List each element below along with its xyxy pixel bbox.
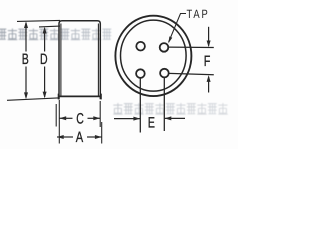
svg-text:D: D <box>40 51 48 68</box>
svg-text:TAP: TAP <box>187 7 210 21</box>
svg-text:C: C <box>76 111 84 128</box>
svg-text:F: F <box>204 53 211 70</box>
svg-text:B: B <box>22 51 29 68</box>
svg-text:E: E <box>148 115 155 132</box>
svg-text:A: A <box>76 129 83 146</box>
